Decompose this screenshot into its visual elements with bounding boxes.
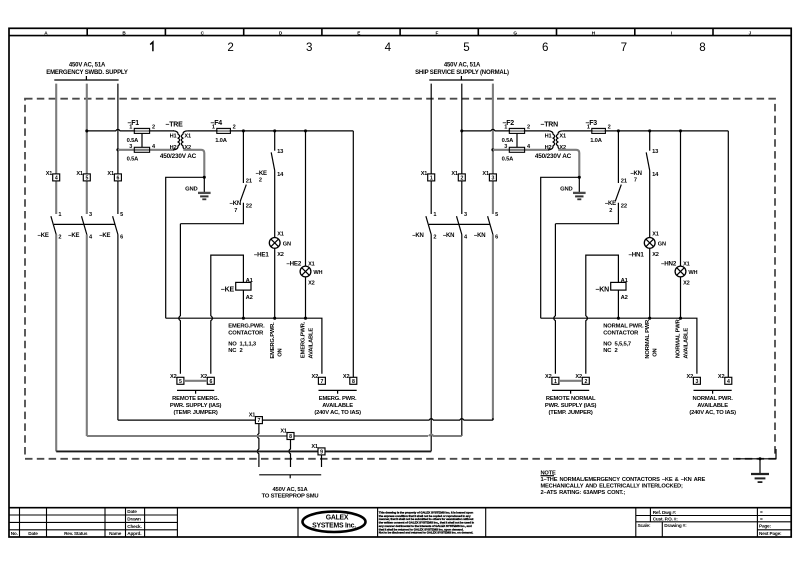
svg-text:450V AC, 51A: 450V AC, 51A xyxy=(272,487,308,493)
svg-text:X2: X2 xyxy=(277,252,284,258)
supply bracket xyxy=(429,79,493,81)
svg-text:X1: X1 xyxy=(652,232,659,238)
svg-text:X2: X2 xyxy=(718,374,725,380)
svg-text:A2: A2 xyxy=(246,295,253,301)
svg-text:GND: GND xyxy=(185,186,197,192)
svg-text:X2: X2 xyxy=(545,374,552,380)
node lamp2 return xyxy=(679,317,682,320)
svg-text:REMOTE EMERG.: REMOTE EMERG. xyxy=(172,396,220,402)
svg-text:3: 3 xyxy=(696,379,699,385)
svg-text:GN: GN xyxy=(283,242,291,248)
svg-text:X1: X1 xyxy=(421,171,428,177)
svg-text:ON: ON xyxy=(653,348,659,356)
wire below pole xyxy=(492,235,494,421)
svg-text:EMERG.PWR.: EMERG.PWR. xyxy=(270,322,276,359)
svg-text:H1: H1 xyxy=(170,133,177,139)
svg-text:Page:: Page: xyxy=(759,524,771,529)
return bus (X2 secondary) xyxy=(166,318,322,374)
svg-text:–HE2: –HE2 xyxy=(286,260,301,267)
svg-text:E: E xyxy=(357,30,360,35)
svg-text:–HE1: –HE1 xyxy=(254,252,269,259)
svg-text:22: 22 xyxy=(246,204,252,210)
svg-text:Not to be disclosed and return: Not to be disclosed and returned to GALE… xyxy=(379,531,474,535)
auxiliary contact KE 13-14 xyxy=(274,131,276,151)
wire L3 drop KN pole 3 xyxy=(492,84,494,214)
svg-text:–KE: –KE xyxy=(38,233,49,239)
wire remote-enable return to coil A1 xyxy=(586,255,619,374)
svg-text:2: 2 xyxy=(233,125,236,131)
svg-text:8: 8 xyxy=(352,379,355,385)
svg-text:1: 1 xyxy=(554,379,557,385)
svg-text:–KE: –KE xyxy=(99,233,110,239)
svg-text:TO STEERPROP SMU: TO STEERPROP SMU xyxy=(262,494,319,500)
svg-text:NC: NC xyxy=(603,348,612,354)
svg-text:0.5A: 0.5A xyxy=(502,156,515,162)
svg-text:X1: X1 xyxy=(683,261,690,267)
wire secondary X1 to 230V control bus xyxy=(188,130,354,132)
svg-text:–F2: –F2 xyxy=(503,120,515,127)
svg-text:2–ATS RATING: 63AMPS CONT.;: 2–ATS RATING: 63AMPS CONT.; xyxy=(541,490,626,496)
wire coil A2 to return bus xyxy=(242,290,244,318)
svg-text:1–THE NORMAL/EMERGENCY CONTACT: 1–THE NORMAL/EMERGENCY CONTACTORS –KE & … xyxy=(541,477,706,483)
wire below pole xyxy=(55,235,57,452)
svg-text:CONTACTOR: CONTACTOR xyxy=(603,330,639,336)
fuse link bar xyxy=(141,133,143,147)
svg-text:5: 5 xyxy=(495,212,498,218)
svg-text:5: 5 xyxy=(85,176,88,182)
svg-text:7: 7 xyxy=(258,418,261,424)
wire L1 drop KE pole 1 xyxy=(55,84,57,214)
node on L2 xyxy=(460,129,463,132)
svg-text:GN: GN xyxy=(658,242,666,248)
stub X1-7 to SMU xyxy=(257,424,259,467)
svg-text:3: 3 xyxy=(129,144,132,150)
svg-text:–TRE: –TRE xyxy=(166,121,184,128)
svg-text:6: 6 xyxy=(495,234,498,240)
wire 14 to lamp HN1 xyxy=(649,171,651,238)
wire secondary X1 to 230V control bus xyxy=(563,130,729,132)
svg-text:X1: X1 xyxy=(277,232,284,238)
svg-text:22: 22 xyxy=(621,204,627,210)
terminal X1-4 xyxy=(53,174,60,181)
left half: emergency source xyxy=(38,63,362,452)
svg-text:21: 21 xyxy=(246,179,253,185)
svg-text:NO: NO xyxy=(603,342,612,348)
column header strip xyxy=(9,35,791,37)
svg-text:X1: X1 xyxy=(559,133,566,139)
svg-text:(240V AC, TO IAS): (240V AC, TO IAS) xyxy=(314,410,361,416)
node coil return xyxy=(242,317,245,320)
node lamp1 return xyxy=(273,317,276,320)
svg-text:7: 7 xyxy=(234,208,237,214)
auxiliary contact KN 21-22 interlock xyxy=(242,131,244,183)
wire lamp to return bus xyxy=(680,277,682,318)
svg-text:1: 1 xyxy=(433,212,436,218)
svg-text:1: 1 xyxy=(58,212,61,218)
svg-text:X1: X1 xyxy=(107,171,114,177)
svg-text:–KE: –KE xyxy=(221,287,235,294)
svg-text:8: 8 xyxy=(699,41,705,54)
svg-text:2: 2 xyxy=(152,125,155,131)
terminal X1-5 xyxy=(83,174,90,181)
cable bracket pwr available xyxy=(319,389,357,391)
wire L2 drop KE pole 2 xyxy=(86,84,88,214)
svg-text:–F4: –F4 xyxy=(211,120,223,127)
ATS cabinet dashed enclosure xyxy=(25,99,775,459)
svg-text:Scale:: Scale: xyxy=(638,523,651,528)
node on L3 xyxy=(491,148,494,151)
svg-text:X1: X1 xyxy=(311,444,318,450)
node lamp1 branch xyxy=(648,129,651,132)
svg-text:7: 7 xyxy=(634,178,637,184)
wire L1 drop KN pole 1 xyxy=(430,84,432,214)
svg-text:1: 1 xyxy=(430,176,433,182)
wire secondary X2 to ground node xyxy=(558,150,579,178)
temporary jumper wire xyxy=(184,380,207,382)
node lamp1 branch xyxy=(273,129,276,132)
wire L2 drop KN pole 2 xyxy=(461,84,463,214)
wire bus corner to terminal 4 xyxy=(727,131,729,377)
svg-text:GALEX: GALEX xyxy=(326,514,349,521)
svg-text:X1: X1 xyxy=(308,261,315,267)
node interlock branch xyxy=(617,129,620,132)
fuse link bar xyxy=(516,133,518,147)
svg-text:NO: NO xyxy=(228,342,237,348)
enclosure PE corner wire xyxy=(736,449,776,459)
svg-text:(TEMP. JUMPER): (TEMP. JUMPER) xyxy=(174,410,218,416)
svg-text:X1: X1 xyxy=(280,429,287,435)
svg-text:9: 9 xyxy=(320,450,323,456)
cable bracket pwr available xyxy=(694,389,732,391)
auxiliary contact KE 21-22 interlock xyxy=(617,131,619,183)
svg-text:H1: H1 xyxy=(545,133,552,139)
node on L2 xyxy=(85,129,88,132)
svg-text:2: 2 xyxy=(259,178,262,184)
svg-text:ON: ON xyxy=(278,348,284,356)
svg-text:Check.: Check. xyxy=(127,524,141,529)
svg-text:13: 13 xyxy=(277,149,284,155)
svg-text:H2: H2 xyxy=(545,145,552,151)
svg-text:NORMAL PWR.: NORMAL PWR. xyxy=(603,324,644,330)
svg-text:2: 2 xyxy=(227,41,233,54)
svg-text:–KN: –KN xyxy=(230,201,241,207)
svg-text:14: 14 xyxy=(277,172,284,178)
wire 22 to remote-enable terminal xyxy=(555,203,618,224)
svg-text:MECHANICALLY AND ELECTRICALLY: MECHANICALLY AND ELECTRICALLY INTERLOCKE… xyxy=(541,484,683,490)
fuse F1 second pole 3-4 xyxy=(118,149,174,151)
ground node dot xyxy=(203,176,206,179)
svg-text:No.: No. xyxy=(11,531,18,536)
svg-text:3: 3 xyxy=(89,212,92,218)
svg-text:NORMAL PWR.: NORMAL PWR. xyxy=(693,396,734,402)
wire lamp to return bus xyxy=(305,277,307,318)
svg-text:5,5,5,7: 5,5,5,7 xyxy=(615,342,631,348)
svg-text:X2: X2 xyxy=(200,374,207,380)
terminal X1-6 xyxy=(114,174,121,181)
svg-text:–KE: –KE xyxy=(256,171,267,177)
svg-text:X1: X1 xyxy=(482,171,489,177)
svg-text:NC: NC xyxy=(228,348,237,354)
svg-text:–KN: –KN xyxy=(596,287,610,294)
svg-text:450/230V AC: 450/230V AC xyxy=(535,153,572,160)
svg-text:–F1: –F1 xyxy=(128,120,140,127)
wire below pole xyxy=(430,235,432,452)
svg-text:2: 2 xyxy=(433,234,436,240)
svg-text:4: 4 xyxy=(727,379,730,385)
stub X1-9 to SMU xyxy=(321,455,323,467)
svg-text:–KN: –KN xyxy=(412,233,423,239)
transformer TRN secondary X1-X2 xyxy=(556,131,562,150)
svg-text:X2: X2 xyxy=(652,252,659,258)
changeover wire L1-left to L1-right (bottom) xyxy=(56,450,318,452)
right half: normal source xyxy=(412,63,736,452)
svg-text:Date: Date xyxy=(127,509,137,514)
svg-text:3: 3 xyxy=(306,41,312,54)
ground symbol xyxy=(578,177,580,193)
node lamp2 branch xyxy=(679,129,682,132)
svg-text:=: = xyxy=(760,516,763,521)
svg-text:2: 2 xyxy=(460,176,463,182)
node on L3 xyxy=(116,148,119,151)
wire coil A2 to return bus xyxy=(617,290,619,318)
supply bracket xyxy=(54,79,118,81)
wire 14 to lamp HE1 xyxy=(274,171,276,238)
changeover wire L2-left to L2-right (middle) xyxy=(87,435,287,437)
svg-text:2: 2 xyxy=(58,234,61,240)
node interlock branch xyxy=(242,129,245,132)
svg-text:EMERG. PWR.: EMERG. PWR. xyxy=(319,396,357,402)
column numbers 1-8 xyxy=(150,42,153,51)
svg-text:2: 2 xyxy=(615,348,618,354)
svg-text:=: = xyxy=(760,510,763,515)
enclosure PE node xyxy=(758,457,761,460)
svg-text:(TEMP. JUMPER): (TEMP. JUMPER) xyxy=(549,410,593,416)
fuse F2 second pole 3-4 xyxy=(493,149,549,151)
stub X1-8 to SMU xyxy=(289,440,291,468)
svg-text:A2: A2 xyxy=(621,295,628,301)
svg-text:AVAILABLE: AVAILABLE xyxy=(697,403,728,409)
terminal X1-2 xyxy=(458,174,465,181)
wire 22 to remote-enable terminal xyxy=(180,203,243,224)
svg-text:REMOTE NORMAL: REMOTE NORMAL xyxy=(546,396,596,402)
wire remote-enable return to coil A1 xyxy=(211,255,244,374)
svg-text:–TRN: –TRN xyxy=(541,121,559,128)
svg-text:7: 7 xyxy=(321,379,324,385)
enclosure ground symbol xyxy=(759,459,761,474)
cable bracket remote supply xyxy=(552,389,589,391)
svg-text:0.5A: 0.5A xyxy=(127,156,140,162)
svg-text:H2: H2 xyxy=(170,145,177,151)
svg-text:1.0A: 1.0A xyxy=(590,138,603,144)
cable bracket to SMU xyxy=(259,474,321,476)
svg-text:X2: X2 xyxy=(683,281,690,287)
svg-text:Cust. P.O. #:: Cust. P.O. #: xyxy=(653,516,679,521)
control bus wire to fuse F1 xyxy=(87,129,174,131)
svg-text:Date: Date xyxy=(28,531,38,536)
svg-text:5: 5 xyxy=(120,212,123,218)
svg-text:21: 21 xyxy=(621,179,628,185)
svg-text:X2: X2 xyxy=(308,281,315,287)
svg-text:450V AC, 51A: 450V AC, 51A xyxy=(69,63,106,69)
svg-text:NORMAL PWR.: NORMAL PWR. xyxy=(676,317,682,358)
auxiliary contact KN 13-14 xyxy=(649,131,651,151)
svg-text:–KE: –KE xyxy=(605,201,616,207)
svg-text:X1: X1 xyxy=(451,171,458,177)
svg-text:Ref. Dwg #:: Ref. Dwg #: xyxy=(653,510,677,515)
svg-text:6: 6 xyxy=(117,176,120,182)
svg-text:7: 7 xyxy=(621,41,627,54)
svg-text:SHIP SERVICE SUPPLY (NORMAL): SHIP SERVICE SUPPLY (NORMAL) xyxy=(415,70,509,76)
svg-text:–KE: –KE xyxy=(68,233,79,239)
svg-text:EMERG.PWR.: EMERG.PWR. xyxy=(301,321,307,358)
svg-text:X2: X2 xyxy=(343,374,350,380)
wire L3 drop KE pole 3 xyxy=(117,84,119,214)
node lamp2 branch xyxy=(304,129,307,132)
svg-text:X1: X1 xyxy=(249,413,256,419)
transformer TRE secondary X1-X2 xyxy=(181,131,187,150)
node lamp1 return xyxy=(648,317,651,320)
svg-text:6: 6 xyxy=(542,41,548,54)
title block grid xyxy=(9,507,791,509)
ground node dot xyxy=(578,176,581,179)
svg-text:CONTACTOR: CONTACTOR xyxy=(228,330,264,336)
temporary jumper wire xyxy=(559,380,582,382)
svg-text:1,1,1,3: 1,1,1,3 xyxy=(240,342,257,348)
svg-text:2: 2 xyxy=(609,208,612,214)
svg-text:6: 6 xyxy=(209,379,212,385)
svg-text:X1: X1 xyxy=(76,171,83,177)
svg-text:4: 4 xyxy=(385,41,392,54)
return bus (X2 secondary) xyxy=(541,318,697,374)
wire ground node to return bus xyxy=(541,177,580,318)
svg-text:WH: WH xyxy=(688,270,697,276)
svg-text:14: 14 xyxy=(652,172,659,178)
svg-text:PWR. SUPPLY (IAS): PWR. SUPPLY (IAS) xyxy=(545,403,597,409)
svg-text:450V AC, 51A: 450V AC, 51A xyxy=(444,63,481,69)
svg-text:2: 2 xyxy=(584,379,587,385)
wire below pole xyxy=(86,235,88,437)
ground symbol xyxy=(203,177,205,193)
changeover wire L3-left to L3-right (top) xyxy=(118,419,256,421)
svg-text:X2: X2 xyxy=(312,374,319,380)
svg-text:NORMAL PWR.: NORMAL PWR. xyxy=(645,318,651,359)
svg-text:5: 5 xyxy=(463,41,469,54)
svg-text:X2: X2 xyxy=(687,374,694,380)
node coil return xyxy=(617,317,620,320)
wire ground node to return bus xyxy=(166,177,205,318)
svg-text:2: 2 xyxy=(240,348,243,354)
svg-text:AVAILABLE: AVAILABLE xyxy=(309,328,315,359)
svg-text:Next Page:: Next Page: xyxy=(759,531,782,536)
svg-text:(240V AC, TO IAS): (240V AC, TO IAS) xyxy=(689,410,736,416)
svg-text:Rev. Status: Rev. Status xyxy=(64,531,88,536)
svg-text:X1: X1 xyxy=(184,133,191,139)
svg-text:EMERG.PWR.: EMERG.PWR. xyxy=(228,324,265,330)
svg-text:–F3: –F3 xyxy=(586,120,598,127)
mechanical link KN poles xyxy=(429,223,490,225)
svg-text:X2: X2 xyxy=(170,374,177,380)
svg-text:3: 3 xyxy=(504,144,507,150)
wire lamp to return bus xyxy=(649,248,651,318)
svg-text:EMERGENCY SWBD. SUPPLY: EMERGENCY SWBD. SUPPLY xyxy=(46,70,128,76)
svg-text:–HN1: –HN1 xyxy=(628,252,644,259)
svg-text:G: G xyxy=(513,30,517,35)
svg-text:2: 2 xyxy=(527,125,530,131)
svg-text:3: 3 xyxy=(492,176,495,182)
svg-text:Drawn: Drawn xyxy=(127,517,141,522)
svg-text:F: F xyxy=(436,30,439,35)
svg-text:AVAILABLE: AVAILABLE xyxy=(684,328,690,359)
svg-text:Drawing #:: Drawing #: xyxy=(664,523,687,528)
svg-text:13: 13 xyxy=(652,149,659,155)
mechanical link KE poles xyxy=(54,223,115,225)
svg-text:4: 4 xyxy=(55,176,58,182)
wire bus corner to terminal 8 xyxy=(352,131,354,377)
node lamp2 return xyxy=(304,317,307,320)
logo GALEX SYSTEMS Inc. xyxy=(303,512,366,532)
svg-text:GND: GND xyxy=(560,186,572,192)
svg-text:2: 2 xyxy=(608,125,611,131)
svg-text:5: 5 xyxy=(179,379,182,385)
svg-text:WH: WH xyxy=(313,270,322,276)
wire lamp to return bus xyxy=(274,248,276,318)
svg-text:I: I xyxy=(671,30,672,35)
control bus wire to fuse F2 xyxy=(462,129,549,131)
wire below pole xyxy=(461,235,463,437)
svg-text:X1: X1 xyxy=(46,171,53,177)
wire corner right L3 xyxy=(492,418,494,420)
svg-text:AVAILABLE: AVAILABLE xyxy=(322,403,353,409)
svg-text:6: 6 xyxy=(120,234,123,240)
wire bus to lamp HE2 xyxy=(305,131,307,266)
wire secondary X2 to ground node xyxy=(183,150,204,178)
svg-text:–KN: –KN xyxy=(474,233,485,239)
svg-text:Apprd.: Apprd. xyxy=(127,531,141,536)
svg-text:8: 8 xyxy=(289,434,292,440)
wire below pole xyxy=(117,235,119,421)
wire bus to lamp HN2 xyxy=(680,131,682,266)
svg-text:3: 3 xyxy=(464,212,467,218)
terminal X1-3 xyxy=(489,174,496,181)
svg-text:450/230V AC: 450/230V AC xyxy=(160,153,197,160)
cable bracket remote supply xyxy=(177,389,214,391)
svg-text:Name: Name xyxy=(109,531,122,536)
svg-text:–KN: –KN xyxy=(443,233,454,239)
svg-text:1.0A: 1.0A xyxy=(215,138,228,144)
svg-text:–HN2: –HN2 xyxy=(661,260,677,267)
svg-text:PWR. SUPPLY (IAS): PWR. SUPPLY (IAS) xyxy=(170,403,222,409)
terminal X1-1 xyxy=(428,174,435,181)
svg-text:X2: X2 xyxy=(575,374,582,380)
svg-text:–KN: –KN xyxy=(630,171,641,177)
svg-text:SYSTEMS Inc.: SYSTEMS Inc. xyxy=(312,523,356,530)
